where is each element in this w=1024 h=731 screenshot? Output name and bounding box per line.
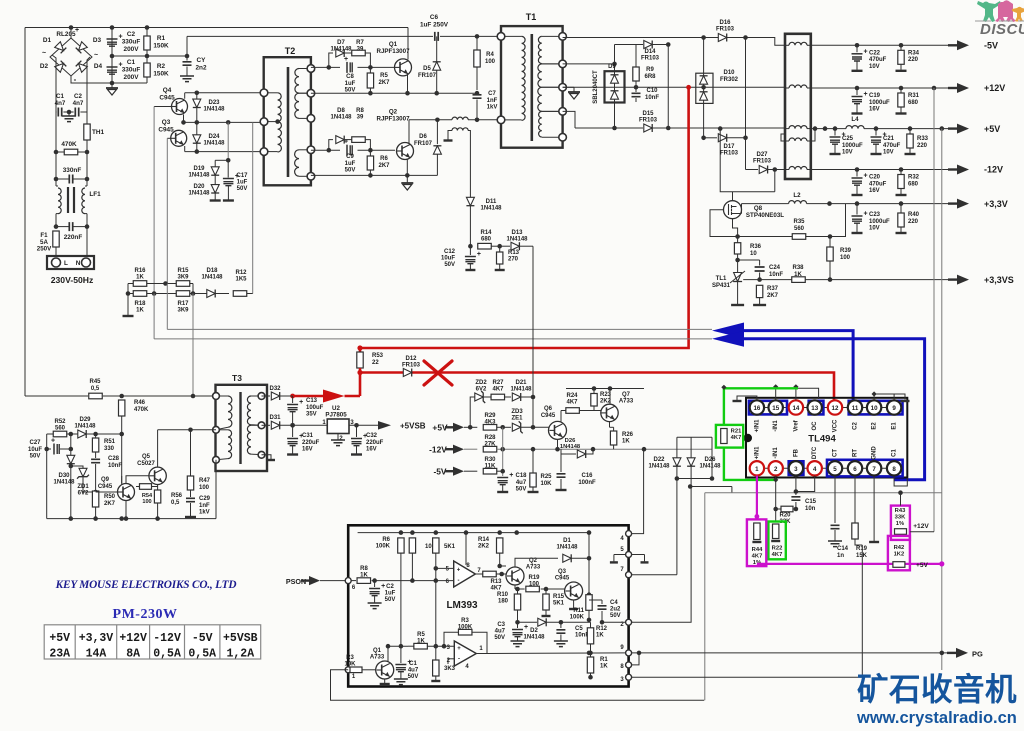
resistor R6 100K xyxy=(398,538,404,553)
svg-text:1N4148: 1N4148 xyxy=(480,206,502,212)
svg-text:C20: C20 xyxy=(869,175,881,181)
svg-text:680: 680 xyxy=(481,237,492,243)
svg-text:100: 100 xyxy=(142,499,151,505)
wire red path R53 branch xyxy=(359,348,362,352)
TL494 bottom pin row line xyxy=(749,467,902,469)
TL494 pin 10 xyxy=(867,400,881,414)
svg-text:8A: 8A xyxy=(126,648,140,661)
svg-text:D7: D7 xyxy=(337,40,345,46)
green box resistor R22 4K7 xyxy=(768,522,785,560)
wire OVP tops join xyxy=(677,436,712,438)
svg-text:VCC: VCC xyxy=(833,419,839,432)
pin 8 circle xyxy=(626,662,632,668)
transistor Q9 C945 xyxy=(118,484,135,501)
svg-text:330: 330 xyxy=(104,446,115,452)
svg-text:39: 39 xyxy=(357,47,364,53)
wire pin6 input line y=580.6 xyxy=(345,578,351,584)
svg-text:R8: R8 xyxy=(356,108,364,114)
wire opamp out pin9 xyxy=(476,653,487,655)
svg-text:www.crystalradio.cn: www.crystalradio.cn xyxy=(856,709,1017,727)
svg-text:R14: R14 xyxy=(480,230,492,236)
resistor R5 2K7 xyxy=(368,65,373,70)
wire blue drive line C1 pin8 xyxy=(741,339,925,480)
resistor R6 2K7 xyxy=(368,148,373,153)
svg-text:+3,3V: +3,3V xyxy=(79,632,114,645)
wire +12V sense vertical x=934 xyxy=(932,86,937,91)
wire pin4 DTC hook xyxy=(796,476,815,492)
svg-text:L: L xyxy=(64,260,68,267)
svg-text:4u7: 4u7 xyxy=(495,629,506,635)
svg-text:D1: D1 xyxy=(563,538,571,544)
svg-text:-12V: -12V xyxy=(153,632,181,645)
resistor R30 11K xyxy=(464,470,477,472)
svg-text:R5: R5 xyxy=(417,632,425,638)
svg-text:16: 16 xyxy=(753,405,760,412)
svg-text:1N4148: 1N4148 xyxy=(201,275,223,281)
svg-text:DTC: DTC xyxy=(812,446,818,459)
wire pin7 GND drop xyxy=(873,476,875,541)
capacitor C4 2u2 50V xyxy=(589,599,602,601)
wire bottom return y=700 xyxy=(331,670,705,700)
blue box pin 3 xyxy=(789,461,804,475)
wire Q8 source to +3.3V line xyxy=(737,213,742,215)
svg-text:R9: R9 xyxy=(646,67,654,73)
wire primary bottom y=119.8 xyxy=(409,119,452,121)
wire T1 pin2 to SBL riser xyxy=(563,63,615,65)
svg-text:1N4148: 1N4148 xyxy=(699,464,721,470)
svg-text:5K1: 5K1 xyxy=(444,544,456,550)
svg-text:+: + xyxy=(457,568,461,574)
svg-text:+5V: +5V xyxy=(49,632,70,645)
MOSFET Q8 STP40NE03L xyxy=(724,201,742,219)
svg-text:R5: R5 xyxy=(380,73,388,79)
output choke toroid box xyxy=(785,34,811,179)
wire x=704.8 drop to bottom xyxy=(704,493,706,701)
svg-text:1K: 1K xyxy=(136,308,144,314)
svg-text:+: + xyxy=(864,211,868,218)
svg-text:D19: D19 xyxy=(193,166,205,172)
svg-text:C12: C12 xyxy=(444,249,456,255)
current transformer primary coil xyxy=(452,117,468,120)
svg-text:2K7: 2K7 xyxy=(767,293,779,299)
svg-text:C10: C10 xyxy=(646,88,658,94)
capacitor C1 4n7 xyxy=(58,108,61,117)
wire y=478.5 link xyxy=(677,478,712,480)
svg-text:4K7: 4K7 xyxy=(490,586,502,592)
shunt regulator TL1 SP431 xyxy=(733,273,742,282)
svg-text:1N4148: 1N4148 xyxy=(203,141,225,147)
wire corner x=252.7 xyxy=(252,122,254,293)
svg-text:A733: A733 xyxy=(526,565,541,571)
svg-text:+12V: +12V xyxy=(913,523,929,530)
wire internal vcc bus y=532.6 xyxy=(358,532,589,534)
output arrow -12V xyxy=(948,168,957,170)
svg-text:1kV: 1kV xyxy=(487,105,498,111)
red X mark xyxy=(424,361,452,385)
wire pin2 riser net xyxy=(775,476,777,522)
wire R17 descender x=193 xyxy=(192,294,194,397)
transformer T3 core xyxy=(239,392,241,464)
svg-text:C9: C9 xyxy=(346,154,354,160)
wire pin3 sense line xyxy=(632,676,863,678)
T2 right windings xyxy=(299,68,311,70)
capacitor C17 1uF 50V xyxy=(227,160,229,177)
diode D5 FR107 xyxy=(436,36,438,62)
resistor R39 100 xyxy=(829,237,831,248)
svg-text:R2: R2 xyxy=(157,63,166,70)
svg-text:D16: D16 xyxy=(719,20,731,26)
wire +12V rail xyxy=(811,87,948,89)
wire -12V rail xyxy=(811,169,948,171)
wire -5V from top bus xyxy=(811,44,948,46)
svg-text:27K: 27K xyxy=(484,442,496,448)
T1 center tap ground xyxy=(563,86,574,88)
wire Q3 base to x=167 xyxy=(167,137,171,139)
svg-text:50V: 50V xyxy=(408,674,419,680)
resistor R16 1K xyxy=(128,283,193,285)
svg-text:矿石收音机: 矿石收音机 xyxy=(857,671,1017,707)
wire magenta bottom rail y=563.9 xyxy=(757,563,942,565)
svg-text:D1: D1 xyxy=(43,37,52,44)
svg-text:1N4148: 1N4148 xyxy=(330,46,352,52)
svg-text:C945: C945 xyxy=(158,126,174,133)
resistor R3 10K xyxy=(350,667,362,673)
resistor R36 10 xyxy=(735,234,740,239)
svg-text:C23: C23 xyxy=(869,212,881,218)
svg-text:C1: C1 xyxy=(892,449,898,457)
TL494 pin 1 xyxy=(750,461,764,475)
capacitor C24 10nF xyxy=(738,259,760,261)
svg-text:250V: 250V xyxy=(37,246,52,253)
svg-text:230V-50Hz: 230V-50Hz xyxy=(51,275,94,285)
resistor R19 100 xyxy=(514,585,516,589)
inductor L2 xyxy=(742,203,789,205)
svg-text:16V: 16V xyxy=(869,107,880,113)
svg-text:4n7: 4n7 xyxy=(73,100,84,107)
svg-text:R18: R18 xyxy=(134,301,146,307)
svg-text:33K: 33K xyxy=(895,514,906,520)
svg-text:1N4148: 1N4148 xyxy=(510,387,532,393)
svg-text:2n2: 2n2 xyxy=(195,64,206,71)
svg-text:D21: D21 xyxy=(515,380,527,386)
svg-text:FR103: FR103 xyxy=(641,56,660,62)
wire plus input stub xyxy=(436,567,454,569)
transistor Q5 C5027 xyxy=(149,467,166,484)
diode D18 1N4148 xyxy=(193,293,229,295)
svg-text:R38: R38 xyxy=(792,265,804,271)
svg-text:1N4148: 1N4148 xyxy=(74,424,96,430)
wire pin15 riser xyxy=(775,388,777,400)
svg-text:D13: D13 xyxy=(511,230,523,236)
resistor R46 470K xyxy=(119,394,124,399)
svg-text:3: 3 xyxy=(794,466,798,473)
capacitor C29 1nF 1kV xyxy=(186,498,195,501)
svg-text:R29: R29 xyxy=(484,413,496,419)
svg-text:TH1: TH1 xyxy=(92,129,105,136)
svg-text:39: 39 xyxy=(357,115,364,121)
svg-text:C3: C3 xyxy=(497,622,505,628)
svg-text:+: + xyxy=(51,438,55,445)
resistor R15 5K1 xyxy=(545,589,547,594)
regulator U2 PJ7805 xyxy=(327,419,349,434)
wire N down to connector xyxy=(86,227,88,256)
svg-text:~: ~ xyxy=(42,50,46,57)
resistor R8 39 xyxy=(352,137,366,143)
diode D22 1N4148 xyxy=(676,437,678,458)
svg-text:D32: D32 xyxy=(269,386,281,392)
capacitor C25 1000uF 10V xyxy=(823,126,828,131)
TL494 pin 7 xyxy=(867,461,881,475)
wire doubler midpoint y=56 xyxy=(112,55,187,57)
resistor R27 4K7 xyxy=(484,396,492,398)
svg-text:5: 5 xyxy=(833,466,837,473)
svg-text:1nF: 1nF xyxy=(487,98,498,104)
wire sense riser x=167 from Q3 base xyxy=(166,138,168,283)
svg-text:470uF: 470uF xyxy=(883,143,901,149)
svg-text:-5V: -5V xyxy=(433,466,446,476)
TL494 pin 9 xyxy=(887,400,901,414)
svg-text:C14: C14 xyxy=(837,546,849,552)
svg-text:D2: D2 xyxy=(530,628,538,634)
svg-text:C5027: C5027 xyxy=(137,461,155,467)
svg-text:470uF: 470uF xyxy=(869,57,887,63)
svg-text:TL494: TL494 xyxy=(808,434,836,445)
svg-text:Q1: Q1 xyxy=(373,648,382,654)
capacitor C8 1uF 50V xyxy=(346,62,348,73)
svg-text:4K7: 4K7 xyxy=(492,387,504,393)
svg-text:D26: D26 xyxy=(704,457,716,463)
diode D32 xyxy=(262,395,271,397)
resistor 10K xyxy=(409,538,415,553)
svg-text:1000uF: 1000uF xyxy=(869,100,890,106)
diode D7 1N4148 xyxy=(327,65,332,70)
capacitor C27 10uF 50V xyxy=(46,434,48,449)
diode D29 1N4148 xyxy=(78,430,86,438)
svg-text:OC: OC xyxy=(812,421,818,431)
pin 1 circle xyxy=(345,667,351,673)
svg-text:C21: C21 xyxy=(883,136,895,142)
svg-text:R40: R40 xyxy=(908,212,920,218)
resistor R4 100 xyxy=(475,34,480,39)
choke winding +12V xyxy=(789,85,807,88)
svg-text:C5: C5 xyxy=(575,626,583,632)
svg-text:+5VSB: +5VSB xyxy=(400,421,426,430)
choke winding -12V xyxy=(789,167,807,170)
svg-text:8: 8 xyxy=(892,466,896,473)
transistor Q3 C945 xyxy=(171,130,187,146)
svg-text:C2: C2 xyxy=(386,584,394,590)
arrow +5VSB output xyxy=(378,421,391,430)
capacitor C22 xyxy=(855,43,860,48)
svg-text:+12V: +12V xyxy=(984,83,1005,93)
svg-text:14: 14 xyxy=(792,405,799,412)
wire primary HV mid bus y=36.4 xyxy=(187,35,433,37)
wire Q1 base line y=67.4 xyxy=(311,66,340,68)
svg-text:Q4: Q4 xyxy=(163,87,172,94)
svg-text:560: 560 xyxy=(55,426,66,432)
svg-text:C945: C945 xyxy=(98,484,113,490)
svg-text:CT: CT xyxy=(833,449,839,457)
resistor R32 xyxy=(899,167,904,172)
svg-text:+3,3V: +3,3V xyxy=(984,199,1008,209)
svg-text:220uF: 220uF xyxy=(302,440,320,446)
svg-text:+IN1: +IN1 xyxy=(754,419,760,433)
wire R14 to Q2 base xyxy=(499,553,501,566)
TL494 top pin row line xyxy=(749,407,902,409)
svg-text:D4: D4 xyxy=(94,63,103,70)
diode D10 FR302 dual xyxy=(696,73,713,103)
svg-text:1K: 1K xyxy=(136,275,144,281)
wire sense sum vertical x=502.7 xyxy=(502,427,504,476)
output arrow +5V xyxy=(948,127,957,129)
wire bridge minus down xyxy=(71,76,147,83)
capacitor C2 1uF 50V xyxy=(374,581,376,587)
TL494 pin 14 xyxy=(789,400,803,414)
wire +5V rectified line y=128 xyxy=(668,127,785,129)
capacitor C2 330uF 200V xyxy=(111,28,113,57)
svg-text:22: 22 xyxy=(372,360,379,366)
svg-text:+: + xyxy=(864,91,868,98)
wire pin7 to D22 xyxy=(632,574,677,576)
wire Q4 collector to T2 pin1 y=92.8 xyxy=(185,92,264,94)
svg-text:6V2: 6V2 xyxy=(476,387,487,393)
wire x=712 drop xyxy=(711,437,713,478)
svg-text:+3,3VS: +3,3VS xyxy=(984,275,1014,285)
pin 5 circle xyxy=(626,552,632,558)
AC connector L N xyxy=(47,256,94,269)
svg-text:10V: 10V xyxy=(869,226,880,232)
resistor 470K xyxy=(64,149,78,155)
T3 pins xyxy=(213,393,220,400)
svg-text:100: 100 xyxy=(840,255,851,261)
svg-text:4u7: 4u7 xyxy=(516,480,527,486)
svg-text:200V: 200V xyxy=(124,46,140,53)
svg-text:C2: C2 xyxy=(127,31,136,38)
wire mid rail y=122.4 xyxy=(184,121,265,123)
svg-text:+5V: +5V xyxy=(984,124,1000,134)
svg-text:N: N xyxy=(76,260,81,267)
svg-text:100: 100 xyxy=(529,582,540,588)
wire pin5 stubs xyxy=(614,554,626,556)
resistor R7 39 xyxy=(352,50,366,56)
diode D16 FR103 xyxy=(718,34,726,42)
svg-text:470K: 470K xyxy=(61,141,77,148)
T2 pins xyxy=(260,89,268,97)
wire U2 ground xyxy=(337,434,339,441)
svg-text:R14: R14 xyxy=(478,537,490,543)
svg-text:D23: D23 xyxy=(208,100,220,106)
svg-text:D6: D6 xyxy=(419,134,427,140)
svg-text:D30: D30 xyxy=(58,473,70,479)
diode D8 1N4148 xyxy=(327,148,332,153)
wire Q6 emitter to C16 xyxy=(557,439,559,449)
capacitor C6 1uF 250V xyxy=(435,32,438,41)
svg-text:50V: 50V xyxy=(237,186,248,192)
svg-text:D26: D26 xyxy=(565,438,576,444)
svg-text:R8: R8 xyxy=(360,566,368,572)
svg-text:50V: 50V xyxy=(385,597,396,603)
resistor R31 xyxy=(899,86,904,91)
svg-text:C27: C27 xyxy=(29,440,41,446)
svg-text:DISCUZ: DISCUZ xyxy=(980,21,1024,38)
svg-text:10K: 10K xyxy=(344,662,356,668)
svg-text:R27: R27 xyxy=(492,380,504,386)
IC LM393 supervisor box xyxy=(348,525,628,686)
svg-text:C16: C16 xyxy=(581,473,593,479)
svg-text:R30: R30 xyxy=(484,457,496,463)
resistor R25 10K xyxy=(532,449,534,473)
resistor R23 2K2 xyxy=(591,394,597,407)
wire pin13 link from green end xyxy=(798,388,819,399)
svg-text:4K7: 4K7 xyxy=(772,552,783,558)
svg-text:100uF: 100uF xyxy=(306,405,324,411)
diode D17 FR103 xyxy=(704,137,717,139)
resistor R53 22 xyxy=(357,352,363,368)
svg-text:7: 7 xyxy=(872,466,876,473)
svg-text:6: 6 xyxy=(853,466,857,473)
svg-text:ZD2: ZD2 xyxy=(475,380,487,386)
svg-text:R15: R15 xyxy=(553,594,565,600)
IC TL494 body xyxy=(746,398,907,478)
svg-text:R13: R13 xyxy=(508,250,520,256)
svg-text:A733: A733 xyxy=(370,655,385,661)
svg-text:680: 680 xyxy=(908,100,919,106)
svg-text:RL205: RL205 xyxy=(56,31,76,38)
pin 9 circle xyxy=(626,650,632,656)
choke winding -5V xyxy=(789,42,807,45)
svg-text:R44: R44 xyxy=(752,547,763,553)
wire choke 5V parallel jog xyxy=(781,134,785,141)
svg-text:-: - xyxy=(458,578,460,584)
svg-text:E2: E2 xyxy=(872,422,878,430)
wire Q1 emitter gnd xyxy=(384,679,386,683)
PG output arrow xyxy=(947,652,956,654)
blue box pins 5 6 7 8 xyxy=(827,460,903,477)
svg-text:ZD3: ZD3 xyxy=(511,409,523,415)
svg-text:R39: R39 xyxy=(840,248,852,254)
wire 10K down xyxy=(411,553,413,581)
svg-text:50V: 50V xyxy=(30,454,41,460)
svg-text:D14: D14 xyxy=(644,49,656,55)
inductor L4 xyxy=(846,126,864,129)
transformer T1 core xyxy=(530,34,533,141)
wire D14 D15 join riser x=668 xyxy=(666,42,671,47)
svg-text:RT: RT xyxy=(853,449,859,457)
svg-text:R22: R22 xyxy=(772,546,783,552)
svg-text:1uF: 1uF xyxy=(345,81,356,87)
wire red path lower leg xyxy=(360,368,834,411)
svg-text:+: + xyxy=(299,399,303,406)
blue arrow upper xyxy=(712,323,744,339)
wire Q1 collector xyxy=(407,28,409,60)
svg-text:C945: C945 xyxy=(541,413,556,419)
svg-text:6V2: 6V2 xyxy=(78,491,89,497)
capacitor C19 xyxy=(855,86,860,91)
svg-text:C24: C24 xyxy=(769,265,781,271)
svg-text:FR107: FR107 xyxy=(414,141,433,147)
wire T1 pin4 jog xyxy=(563,111,575,128)
capacitor CY 2n2 xyxy=(186,36,188,60)
svg-text:+: + xyxy=(524,624,528,631)
wire pin8 hook to body xyxy=(894,476,907,486)
svg-text:1uF: 1uF xyxy=(345,161,356,167)
svg-text:R24: R24 xyxy=(566,393,578,399)
svg-text:SP431: SP431 xyxy=(712,283,731,289)
svg-text:1N4148: 1N4148 xyxy=(506,237,528,243)
primary ground xyxy=(406,175,408,183)
capacitor C32 220uF 16V xyxy=(356,425,358,437)
svg-text:D9: D9 xyxy=(608,64,616,70)
